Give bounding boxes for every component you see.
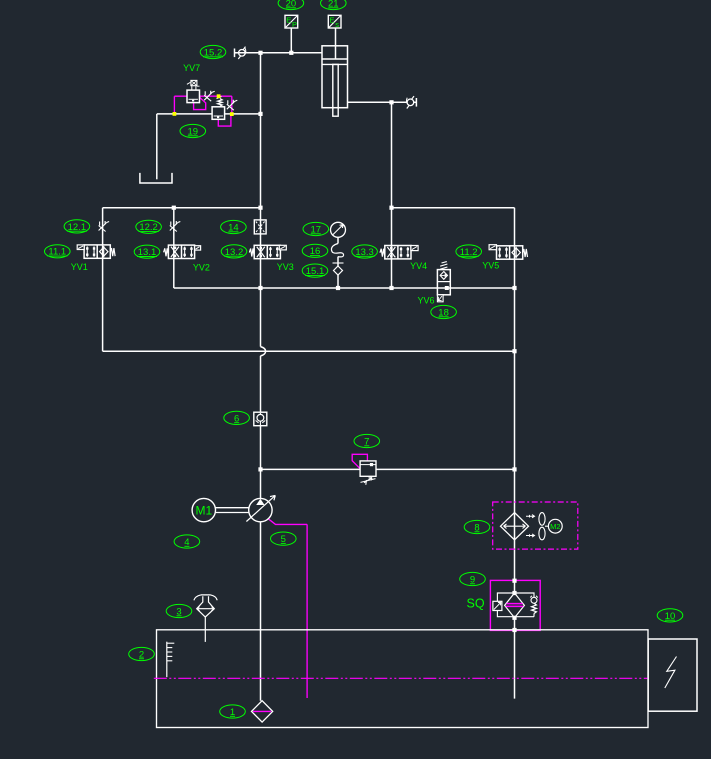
pressure sensor 20 (E/P) <box>285 15 298 29</box>
junction riser/supply <box>258 51 262 55</box>
tank outline <box>157 630 649 728</box>
designator YV1 <box>71 262 88 272</box>
label 10 <box>657 609 683 622</box>
wire manifold bottom rail <box>103 350 515 352</box>
suction strainer 1 <box>252 701 273 722</box>
svg-text:M1: M1 <box>195 504 212 518</box>
label 11.2 <box>456 245 482 258</box>
wire YV7 valve A loop <box>194 97 206 109</box>
svg-text:SQ: SQ <box>467 597 485 611</box>
wire relief valve vent <box>352 454 367 468</box>
wire manifold top-left rail <box>103 207 261 209</box>
wire main riser hop over bottom manifold line <box>261 347 266 356</box>
label 6 <box>224 411 250 424</box>
wire gauge drop lower <box>337 275 339 288</box>
wire YV7 pilot line y113 <box>157 113 261 115</box>
wire manifold left leg <box>102 208 104 352</box>
valve YV4 <box>380 246 418 259</box>
label 13.3 <box>352 245 378 258</box>
wire supply line to cylinder cap end <box>235 52 323 54</box>
wire rod-end riser x391 <box>391 102 393 288</box>
valve YV7 solenoid <box>187 80 200 90</box>
junction trunk filter top <box>512 579 516 583</box>
check valve 6 <box>254 412 267 426</box>
filter bypass frame <box>497 593 534 617</box>
junction sensor20/supply <box>289 51 293 55</box>
junction riser top rail <box>258 206 262 210</box>
wire pump drain <box>267 518 307 525</box>
svg-text:YV2: YV2 <box>193 262 210 272</box>
test coupling 15.1 <box>334 266 343 275</box>
cooler enclosure 8 <box>493 502 578 549</box>
pressure gauge 17 <box>331 222 346 237</box>
node YV7 right (yellow) <box>230 112 234 116</box>
fan motor M2 <box>548 519 562 533</box>
node YV7 pilot tap (yellow) <box>217 94 221 98</box>
filter 14 <box>254 220 266 234</box>
wire cylinder rod-end port <box>348 101 407 103</box>
label 8 <box>464 520 490 533</box>
cylinder piston bottom <box>322 63 348 65</box>
svg-text:E: E <box>330 16 335 25</box>
pump-motor shaft <box>216 508 249 513</box>
test coupling 15.2 <box>235 47 246 59</box>
label 13.1 <box>134 245 160 258</box>
svg-text:E: E <box>286 16 291 25</box>
label 2 <box>129 647 155 660</box>
cooler element <box>501 513 529 540</box>
junction filter frame bottom <box>512 616 516 620</box>
throttle on YV7 pilot bus <box>204 91 215 102</box>
wire manifold top-right rail <box>392 207 515 209</box>
electric cabinet 10 <box>648 639 697 711</box>
level gauge 2 <box>167 642 175 677</box>
wire YV7 solenoid feed left <box>173 96 175 114</box>
junction rod port <box>389 100 393 104</box>
designator YV5 <box>482 260 499 270</box>
label 5 <box>271 532 297 545</box>
label 14 <box>221 220 247 233</box>
label 9 <box>460 572 486 585</box>
designator SQ <box>467 597 485 611</box>
air breather 3 <box>194 595 217 642</box>
cooler fan <box>539 513 549 540</box>
wire tank return header y288 <box>174 287 515 289</box>
cylinder barrel <box>322 46 348 108</box>
label 7 <box>354 434 380 447</box>
cylinder piston top <box>322 58 348 60</box>
variable pump P1 <box>246 495 275 521</box>
label 15.2 <box>200 45 226 58</box>
svg-text:YV7: YV7 <box>183 63 200 73</box>
svg-text:YV1: YV1 <box>71 262 88 272</box>
valve YV7 reducing valve A body <box>187 90 200 103</box>
wire pump suction <box>260 522 262 701</box>
valve YV2 <box>164 245 201 258</box>
valve YV6 <box>437 262 450 302</box>
junction gauge return header <box>336 286 340 290</box>
label 3 <box>166 604 192 617</box>
wire gauge tick <box>333 262 344 264</box>
label 19 <box>180 124 206 137</box>
label 17 <box>303 222 329 235</box>
wire relief header y469 <box>261 468 515 470</box>
junction trunk bottom rail <box>512 349 516 353</box>
wire gauge drop upper <box>337 237 339 243</box>
relief valve 7 <box>360 461 376 485</box>
hose 16 <box>331 244 343 257</box>
wire YV2 branch x173 <box>173 208 175 288</box>
designator YV7 <box>183 63 200 73</box>
valve YV7 pilot spring <box>217 97 223 107</box>
cooler flow arrow bottom <box>526 534 535 537</box>
label 18 <box>431 305 457 318</box>
valve YV1 <box>77 245 115 258</box>
cylinder rod <box>333 64 338 116</box>
throttle 12.1 <box>99 221 110 232</box>
label 11.1 <box>45 245 71 258</box>
lightning symbol <box>665 657 677 689</box>
designator YV4 <box>410 261 427 271</box>
wire pump drain drop <box>306 524 308 698</box>
junction trunk relief header <box>512 467 516 471</box>
designator YV3 <box>277 262 294 272</box>
junction trunk tank top <box>512 628 516 632</box>
label 16 <box>302 244 328 257</box>
label 4 <box>174 535 200 548</box>
junction x391 return header <box>389 286 393 290</box>
svg-text:M2: M2 <box>550 522 560 531</box>
designator YV6 <box>418 295 435 305</box>
test coupling 15.3 stem <box>414 101 417 103</box>
label 1 <box>220 705 246 718</box>
label 21 <box>321 0 347 10</box>
valve YV5 <box>489 245 527 260</box>
label 20 <box>278 0 304 10</box>
wire YV7 valve B loop <box>218 114 231 126</box>
svg-text:YV3: YV3 <box>277 262 294 272</box>
wire gauge drop mid <box>337 257 339 266</box>
label 12.2 <box>136 220 162 233</box>
designator YV2 <box>193 262 210 272</box>
electric motor M1 <box>192 498 215 521</box>
label 12.1 <box>64 220 90 233</box>
wire sensor 21 stem <box>335 28 337 59</box>
drain tank symbol <box>140 173 172 183</box>
wire sensor 20 stem <box>290 28 292 53</box>
node YV7 left (yellow) <box>173 112 177 116</box>
svg-text:s: s <box>335 20 339 29</box>
label 13.2 <box>221 245 247 258</box>
filter bypass check valve <box>530 596 538 614</box>
junction YV6 on return header <box>445 286 449 290</box>
junction trunk return header <box>512 286 516 290</box>
clogging switch SQ <box>493 601 502 610</box>
svg-text:YV5: YV5 <box>482 260 499 270</box>
filter enclosure 9 <box>490 580 540 630</box>
valve YV7 reducing valve B body <box>212 107 225 120</box>
wire YV7 right drop <box>231 96 233 114</box>
junction YV2 branch top <box>172 206 176 210</box>
junction riser relief header <box>258 467 262 471</box>
tank centerline <box>154 677 648 679</box>
junction filter frame top <box>512 591 516 595</box>
junction riser return header <box>258 286 262 290</box>
wire YV7 pilot bus <box>174 95 231 97</box>
test coupling 15.3 <box>406 96 416 108</box>
svg-text:P: P <box>292 20 297 29</box>
svg-text:YV4: YV4 <box>410 261 427 271</box>
svg-text:YV6: YV6 <box>418 295 435 305</box>
wire main riser x260 upper <box>260 53 262 347</box>
label 15.1 <box>302 264 328 277</box>
test coupling 15.2 stem <box>235 52 239 54</box>
junction x391 top rail <box>389 206 393 210</box>
valve YV3 <box>249 245 286 258</box>
cooler flow arrow top <box>526 515 535 518</box>
wire right trunk x514 <box>514 208 516 699</box>
throttle 12.2 <box>170 221 181 232</box>
junction riser/YV7 line <box>258 112 262 116</box>
wire YV7 drain drop <box>156 114 158 179</box>
position sensor 21 (E/s) <box>328 15 341 29</box>
throttle on YV7 right drop <box>227 100 238 111</box>
filter element 9 <box>505 593 525 618</box>
wire main riser x260 lower <box>260 356 262 499</box>
